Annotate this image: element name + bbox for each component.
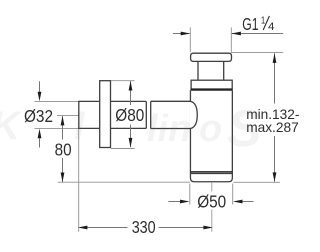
- 330 arrow right: [203, 226, 213, 230]
- 80 arrow bottom: [61, 173, 65, 183]
- node: pipe centerline stub: [57, 115, 79, 117]
- svg-text:l: l: [74, 106, 86, 148]
- Ø50 arrow left: [180, 200, 190, 204]
- G dim arrow right: [231, 32, 241, 36]
- coupling joint lines: [145, 101, 147, 128]
- svg-text:330: 330: [132, 217, 156, 237]
- svg-text:G1: G1: [242, 14, 258, 34]
- min/max extension lines: [231, 52, 283, 54]
- svg-text:1: 1: [261, 14, 266, 26]
- svg-text:K: K: [0, 104, 23, 148]
- neck: [197, 61, 199, 80]
- Ø80 extension lines: [111, 80, 135, 82]
- watermark: [0, 100, 262, 158]
- svg-text:80: 80: [55, 139, 72, 159]
- min/max arrow bottom: [273, 172, 277, 182]
- wire: 330 left extension line: [78, 129, 80, 232]
- svg-text:Ø80: Ø80: [115, 105, 144, 125]
- svg-text:Ø32: Ø32: [24, 106, 53, 126]
- pipe sleeve section: [146, 101, 191, 128]
- Ø32 dimension arrows: [39, 81, 41, 92]
- G dimension lines: [173, 33, 190, 35]
- 330 arrow left: [78, 226, 88, 230]
- wire: pipe top extension line: [35, 100, 80, 102]
- 80 dimension line: [62, 116, 64, 139]
- G dim arrow left: [181, 32, 191, 36]
- svg-text:4: 4: [268, 21, 275, 33]
- wire: bottom reference line: [58, 181, 190, 183]
- cup centerline: [211, 182, 213, 192]
- min/max dimension line: [274, 53, 276, 103]
- wall flange Ø80: [100, 81, 111, 148]
- cup bottom seam (thick): [191, 171, 232, 173]
- pipe Ø32 horizontal: [79, 101, 147, 129]
- Ø50 arrow right: [233, 200, 243, 204]
- Ø80 dimension line: [130, 81, 132, 105]
- min/max arrow top: [273, 53, 277, 63]
- cup upper section: [191, 80, 232, 89]
- elbow dome cap: [190, 101, 198, 128]
- Ø80 arrow top: [129, 81, 133, 91]
- Ø50 extension lines: [189, 184, 191, 205]
- svg-text:S: S: [227, 100, 262, 158]
- wire: pipe bottom extension line: [35, 127, 80, 129]
- svg-text:Ø50: Ø50: [197, 191, 226, 211]
- G dimension extension lines: [189, 27, 191, 52]
- top nut G1 1/4: [191, 53, 232, 61]
- 330 dimension line: [87, 227, 128, 229]
- 80 arrow top: [61, 116, 65, 126]
- svg-text:lin: lin: [147, 108, 191, 150]
- cup top seam (thick): [191, 88, 233, 90]
- Ø50 dimension lines: [168, 201, 181, 203]
- svg-text:o: o: [199, 108, 222, 150]
- cup body: [190, 90, 232, 181]
- Ø80 arrow bottom: [129, 138, 133, 148]
